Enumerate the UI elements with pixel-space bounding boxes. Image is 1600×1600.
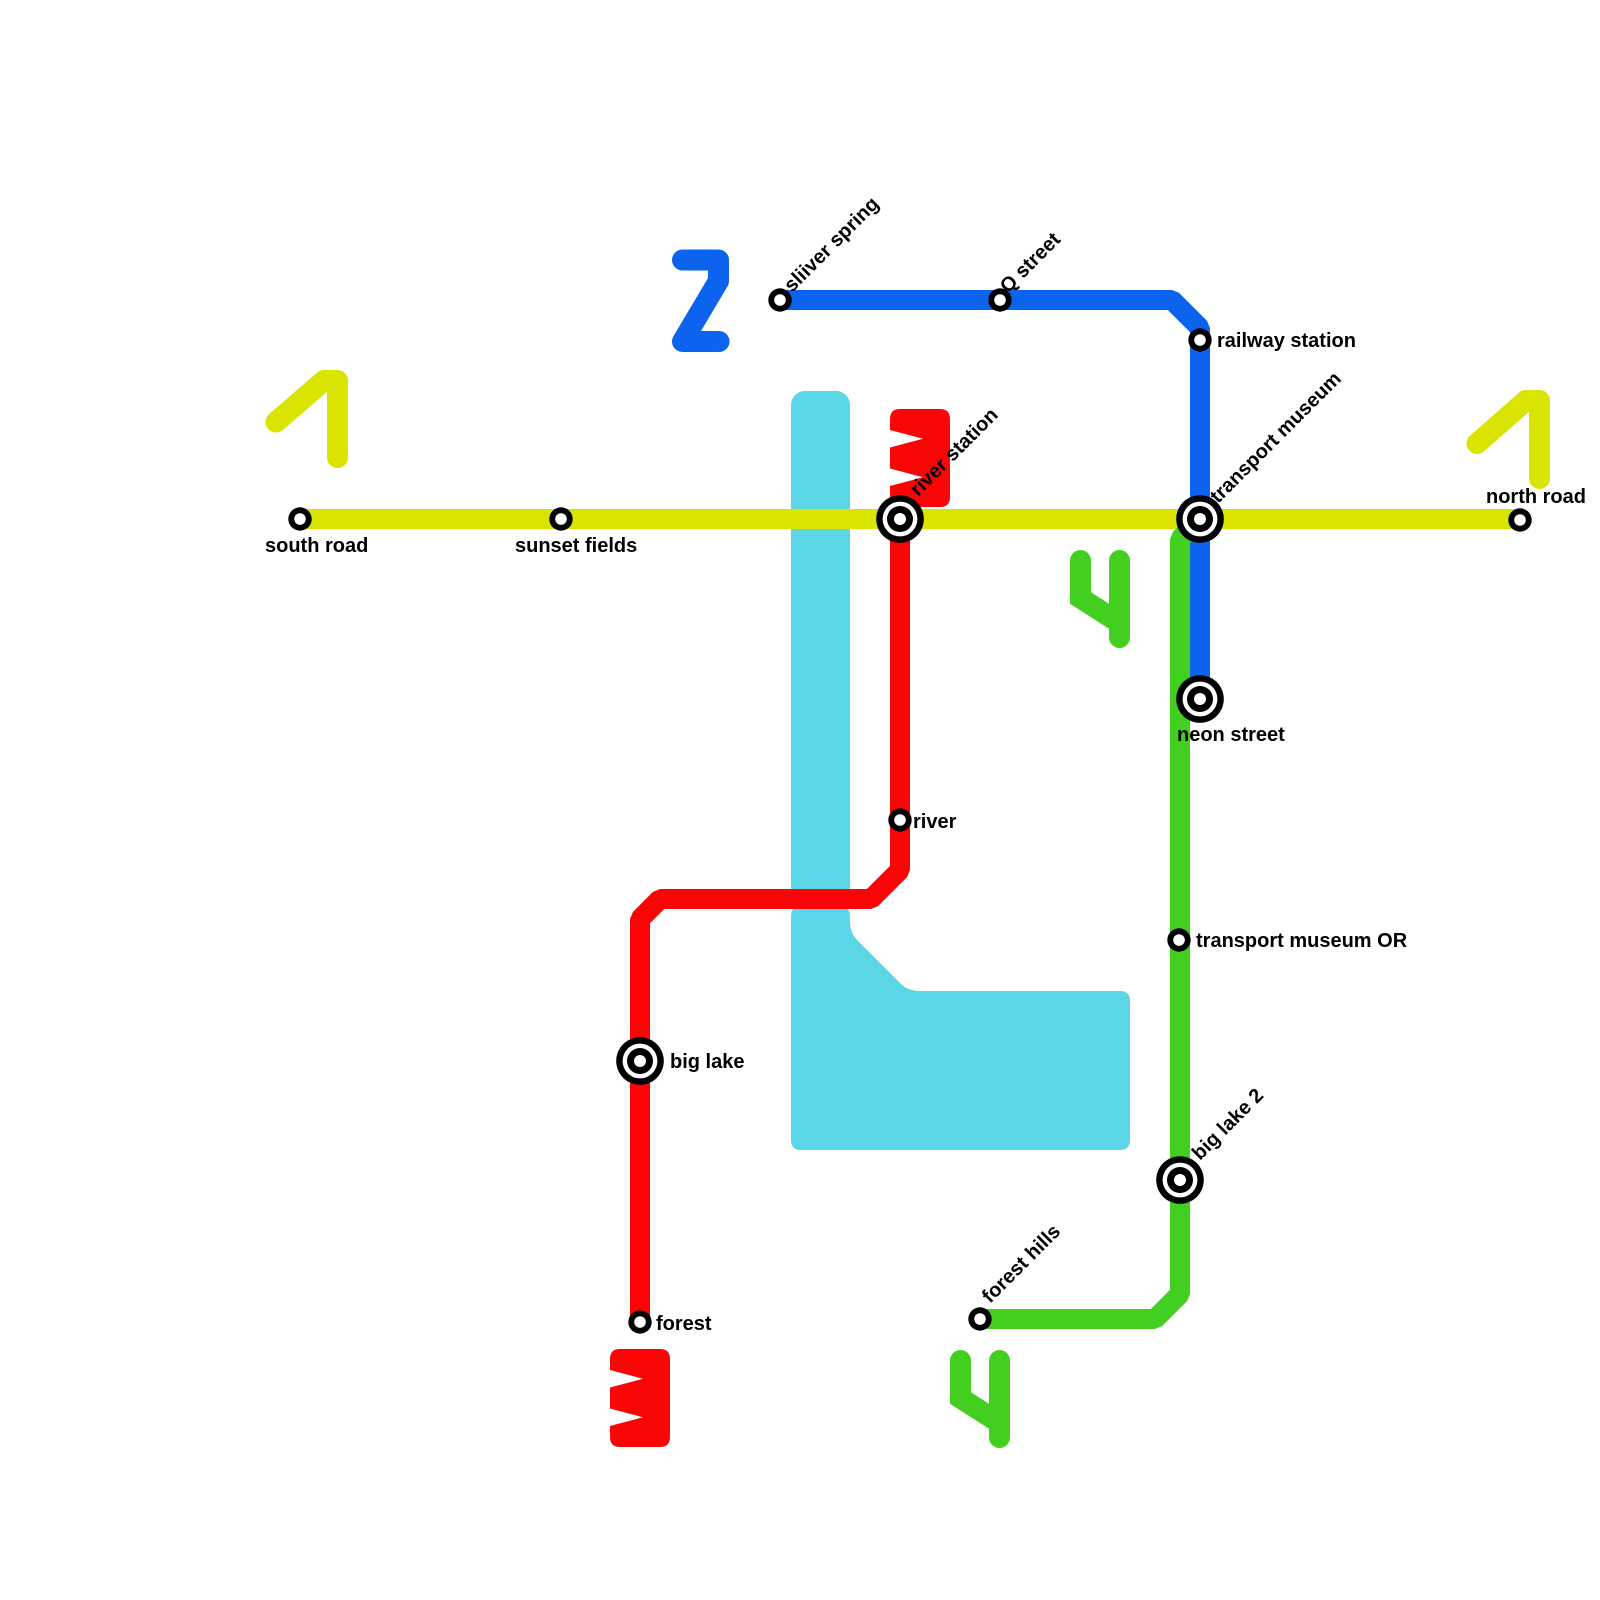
line 4 green xyxy=(980,519,1200,1319)
station railway station xyxy=(1188,328,1211,351)
svg-text:neon street: neon street xyxy=(1177,724,1285,746)
station forest hills xyxy=(968,1307,991,1330)
svg-text:river: river xyxy=(913,811,957,833)
river upper segment xyxy=(791,391,850,521)
station forest xyxy=(628,1310,651,1333)
station south road xyxy=(288,507,311,530)
digit 4 top xyxy=(1081,561,1120,638)
svg-text:big lake: big lake xyxy=(670,1051,744,1073)
interchange river station xyxy=(876,495,924,543)
digit 4 bottom xyxy=(961,1361,1000,1438)
digit 1 right xyxy=(1477,401,1540,479)
station river xyxy=(888,808,911,831)
digit 2 xyxy=(683,260,720,342)
svg-text:north road: north road xyxy=(1486,486,1586,508)
svg-text:south road: south road xyxy=(265,535,368,557)
river middle segment xyxy=(791,517,850,900)
interchange neon street xyxy=(1176,675,1224,723)
svg-text:railway station: railway station xyxy=(1217,330,1356,352)
station sunset fields xyxy=(549,507,572,530)
interchange big lake xyxy=(616,1037,664,1085)
interchange big lake 2 xyxy=(1156,1156,1204,1204)
station north road xyxy=(1508,508,1531,531)
svg-text:sunset fields: sunset fields xyxy=(515,535,637,557)
station transport museum OR xyxy=(1167,928,1190,951)
station sliiver spring xyxy=(768,288,791,311)
lake xyxy=(791,905,1130,1150)
line 2 blue xyxy=(780,300,1200,700)
line 3 red xyxy=(640,519,900,1322)
station Q street xyxy=(988,288,1011,311)
digit 3 top xyxy=(890,409,950,507)
svg-text:transport museum OR: transport museum OR xyxy=(1196,930,1408,952)
interchange transport museum xyxy=(1176,495,1224,543)
line 1 yellow xyxy=(300,509,1521,529)
digit 3 bottom xyxy=(610,1349,670,1447)
svg-text:forest: forest xyxy=(656,1313,712,1335)
digit 1 left xyxy=(276,381,338,458)
